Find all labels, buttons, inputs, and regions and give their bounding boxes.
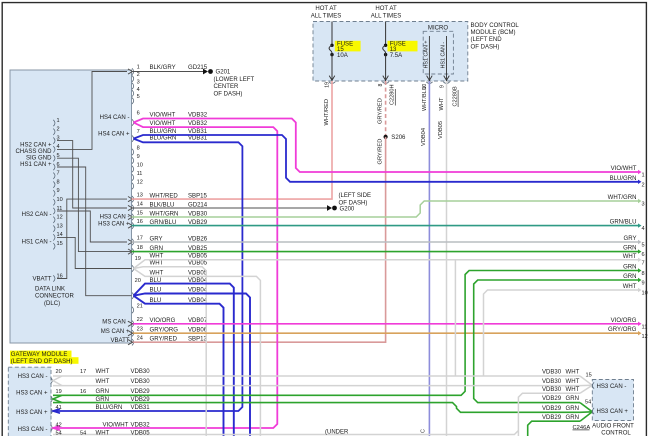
- svg-text:VDB32: VDB32: [188, 112, 208, 118]
- svg-text:41: 41: [56, 405, 62, 411]
- micro relay box: [423, 31, 453, 74]
- wire GRN VDB29 page edge pin9 riser down to audio row1: [474, 280, 639, 403]
- svg-text:HOT AT: HOT AT: [375, 6, 397, 12]
- body control module (BCM) box: [313, 22, 468, 82]
- svg-text:(UNDER: (UNDER: [325, 430, 349, 436]
- svg-text:VDB30: VDB30: [542, 387, 562, 393]
- svg-text:19: 19: [324, 82, 330, 88]
- svg-text:7: 7: [642, 260, 645, 266]
- svg-text:23: 23: [137, 327, 143, 333]
- svg-text:GRN: GRN: [623, 274, 636, 280]
- svg-text:11: 11: [137, 171, 143, 177]
- svg-text:WHT/BLU: WHT/BLU: [422, 86, 428, 111]
- svg-text:VDB31: VDB31: [188, 136, 208, 142]
- svg-text:GRN: GRN: [566, 396, 579, 402]
- page-edge connector pin 8 (GRN): [638, 268, 642, 272]
- pin14 to pin19 internal wire: [57, 237, 132, 268]
- svg-text:4: 4: [137, 87, 140, 93]
- svg-text:VDB30: VDB30: [542, 369, 562, 375]
- arrow into pin13: [128, 197, 133, 202]
- svg-text:BLU/GRN: BLU/GRN: [610, 176, 637, 182]
- svg-text:8: 8: [137, 145, 140, 151]
- svg-text:10: 10: [57, 197, 63, 203]
- svg-text:VDB31: VDB31: [131, 405, 151, 411]
- gateway pin brackets: [51, 377, 53, 383]
- svg-text:6: 6: [642, 252, 645, 258]
- svg-text:WHT: WHT: [96, 369, 110, 375]
- pin4 to pin1 internal wire: [57, 72, 127, 150]
- svg-text:10: 10: [137, 162, 143, 168]
- svg-text:GRY/RED: GRY/RED: [378, 139, 384, 165]
- svg-text:VIO/WHT: VIO/WHT: [103, 422, 129, 428]
- svg-text:OF DASH): OF DASH): [471, 44, 500, 50]
- gateway chevron GRN rows: [53, 395, 62, 402]
- arrow into pin1: [128, 69, 133, 74]
- svg-text:VDB30: VDB30: [542, 379, 562, 385]
- svg-text:54: 54: [80, 430, 86, 436]
- svg-text:12: 12: [642, 334, 648, 340]
- wire fuse F13 output: [385, 55, 387, 81]
- splice S206: [384, 135, 388, 139]
- gateway chevron VIO/WHT row: [53, 426, 60, 430]
- svg-text:13: 13: [57, 223, 63, 229]
- page-edge connector pin 5 (GRY): [638, 240, 642, 244]
- svg-text:8: 8: [57, 179, 60, 185]
- svg-text:GATEWAY MODULE: GATEWAY MODULE: [11, 352, 68, 358]
- svg-text:10A: 10A: [337, 53, 349, 59]
- svg-text:7: 7: [57, 171, 60, 177]
- fuse F15 yellow highlight: [335, 41, 361, 52]
- svg-text:VDB32: VDB32: [131, 422, 151, 428]
- svg-text:3: 3: [137, 79, 140, 85]
- svg-text:8: 8: [378, 84, 384, 87]
- svg-text:OF DASH): OF DASH): [214, 91, 243, 97]
- svg-text:20: 20: [56, 369, 62, 375]
- svg-text:12: 12: [137, 179, 143, 185]
- svg-text:HS1 CAN -: HS1 CAN -: [440, 42, 446, 69]
- svg-text:HS1 CAN -: HS1 CAN -: [22, 240, 52, 246]
- svg-text:(LEFT SIDE: (LEFT SIDE: [339, 193, 371, 199]
- DLC harness-side pin brackets (right edge): [132, 68, 134, 74]
- svg-text:G201: G201: [216, 70, 231, 76]
- svg-text:GRN/BLU: GRN/BLU: [610, 220, 637, 226]
- svg-text:GRN: GRN: [566, 415, 579, 421]
- svg-text:WHT: WHT: [566, 379, 580, 385]
- svg-text:VIO/ORG: VIO/ORG: [611, 318, 637, 324]
- svg-text:ALL TIMES: ALL TIMES: [371, 13, 402, 19]
- fuse F15 symbol: [331, 22, 333, 45]
- wire WHT VDB30 page edge pin10 riser down to audio row1: [484, 290, 639, 376]
- svg-text:WHT: WHT: [96, 379, 110, 385]
- svg-text:5: 5: [642, 243, 645, 249]
- wire GRY/RED dashed segment fuse13 to S206: [385, 81, 387, 137]
- ground G200 symbol: [327, 205, 332, 211]
- svg-text:15: 15: [337, 47, 344, 53]
- svg-text:21: 21: [137, 303, 143, 309]
- svg-text:2: 2: [137, 72, 140, 78]
- pin6 to pin20 internal wire: [57, 167, 132, 296]
- svg-text:54: 54: [56, 430, 62, 436]
- svg-text:WHT: WHT: [150, 271, 164, 277]
- svg-text:VDB29: VDB29: [131, 389, 151, 395]
- svg-text:VBATT: VBATT: [110, 338, 129, 344]
- page-edge connector pin 4 (GRN/BLU): [638, 223, 642, 227]
- svg-text:HS3 CAN +: HS3 CAN +: [597, 409, 629, 415]
- svg-text:VIO/WHT: VIO/WHT: [150, 112, 176, 118]
- svg-text:HS3 CAN -: HS3 CAN -: [597, 384, 627, 390]
- svg-text:VDB30: VDB30: [131, 379, 151, 385]
- svg-text:13: 13: [137, 193, 143, 199]
- BCM exit arrow at x=446.5: [444, 76, 450, 81]
- svg-text:GRN: GRN: [566, 406, 579, 412]
- svg-text:15: 15: [57, 241, 63, 247]
- BCM connector bracket at x=332: [329, 82, 335, 84]
- svg-text:BODY CONTROL: BODY CONTROL: [471, 23, 520, 29]
- arrow into pin24: [128, 340, 133, 345]
- WHT VDB05 row2 down off-page: [134, 267, 207, 436]
- svg-text:MICRO: MICRO: [428, 25, 448, 31]
- svg-text:WHT: WHT: [150, 261, 164, 267]
- DLC pin20 chevron (HS1 CAN+) BLU VDB04 row1 down off-page: [134, 284, 234, 436]
- wire BLK/GRY GD215 pin1 to G201: [132, 71, 204, 73]
- svg-text:GRY/ORG: GRY/ORG: [608, 327, 637, 333]
- svg-text:GRN: GRN: [96, 389, 109, 395]
- DLC pin6 second branch VIO/WHT VDB32 to gateway pin42: [53, 123, 277, 429]
- pin16 to pin13 internal wire: [57, 199, 127, 278]
- svg-text:17: 17: [137, 235, 143, 241]
- data link connector (DLC) module box: [10, 70, 132, 343]
- svg-text:C2280H: C2280H: [390, 84, 396, 105]
- svg-text:HS1 CAN +: HS1 CAN +: [424, 40, 430, 68]
- page-edge connector pin 2 (BLU/GRN): [638, 180, 642, 184]
- svg-text:WHT: WHT: [623, 254, 637, 260]
- svg-text:WHT: WHT: [566, 387, 580, 393]
- svg-text:MS CAN -: MS CAN -: [102, 319, 129, 325]
- page-edge connector pin 7 (WHT): [638, 258, 642, 262]
- wire GRN VDB29 gateway row3 to page edge pin8 via riser: [53, 271, 639, 396]
- svg-text:S206: S206: [391, 135, 406, 141]
- gateway chevron BLU/GRN row: [53, 409, 60, 413]
- svg-text:7.5A: 7.5A: [390, 53, 403, 59]
- svg-text:19: 19: [135, 256, 141, 262]
- svg-text:10: 10: [642, 291, 648, 297]
- wire fuse F15 output: [331, 55, 333, 81]
- gateway module title yellow highlight: [10, 351, 72, 358]
- svg-text:15: 15: [586, 372, 592, 378]
- svg-text:WHT: WHT: [566, 369, 580, 375]
- BCM connector bracket at x=446.5: [443, 82, 449, 84]
- svg-text:CHASS GND: CHASS GND: [16, 149, 53, 155]
- svg-text:14: 14: [137, 201, 143, 207]
- svg-text:22: 22: [137, 317, 143, 323]
- svg-text:HS3 CAN -: HS3 CAN -: [100, 214, 130, 220]
- svg-text:3: 3: [642, 202, 645, 208]
- svg-text:19: 19: [56, 389, 62, 395]
- svg-text:VDB05: VDB05: [188, 261, 208, 267]
- svg-text:WHT/RED: WHT/RED: [324, 99, 330, 126]
- svg-text:MS CAN +: MS CAN +: [101, 329, 130, 335]
- wire GRY/ORG VDB06 pin23 to page edge pin12: [132, 332, 639, 334]
- svg-text:BLU/GRN: BLU/GRN: [150, 136, 177, 142]
- svg-text:VDB05: VDB05: [188, 271, 208, 277]
- pin11 to pin17 internal wire: [57, 211, 127, 242]
- wire WHT/RED SBP15 from fuse 15 to DLC pin13: [132, 81, 333, 199]
- fuse F13 yellow highlight: [388, 41, 418, 52]
- svg-text:WHT: WHT: [623, 284, 637, 290]
- svg-text:11: 11: [642, 324, 648, 330]
- svg-text:8: 8: [642, 271, 645, 277]
- svg-text:VDB30: VDB30: [131, 369, 151, 375]
- svg-text:BLU/GRN: BLU/GRN: [150, 129, 177, 135]
- svg-text:1: 1: [642, 173, 645, 179]
- arrow into pin17: [128, 239, 133, 244]
- audio pin brackets: [592, 382, 594, 388]
- ground G201 symbol: [203, 69, 208, 75]
- svg-text:VBATT: VBATT: [32, 277, 51, 283]
- DLC pin7 chevron HS4 CAN + (BLU/GRN): [134, 135, 639, 182]
- riser WHT continues from off-page bottom: [518, 393, 580, 436]
- svg-text:(DLC): (DLC): [44, 301, 60, 307]
- arrow into pin22: [128, 321, 133, 326]
- gateway chevron WHT rows: [53, 376, 62, 386]
- BCM connector bracket at x=429.4: [426, 82, 432, 84]
- svg-text:GRY: GRY: [624, 236, 637, 242]
- svg-text:54: 54: [585, 399, 591, 405]
- svg-text:HS2 CAN -: HS2 CAN -: [22, 212, 52, 218]
- svg-text:HS3 CAN +: HS3 CAN +: [16, 391, 48, 397]
- svg-text:VDB04: VDB04: [421, 128, 427, 146]
- pin5 to pin18 internal wire: [57, 158, 132, 251]
- audio front control module box: [592, 380, 633, 421]
- svg-text:16: 16: [80, 389, 86, 395]
- svg-text:SIG GND: SIG GND: [26, 156, 52, 162]
- wire WHT VDB05 gateway pin54 to audio row3 via riser: [53, 431, 518, 435]
- WHT riser link from HS1 CAN- row down to gateway row1: [454, 260, 456, 376]
- arrow into pin23: [128, 331, 133, 336]
- svg-text:5: 5: [137, 94, 140, 100]
- page-edge connector pin 1 (VIO/WHT): [638, 170, 642, 174]
- svg-text:VDB31: VDB31: [188, 129, 208, 135]
- wire GRN VDB25 pin18 to page edge pin6: [132, 251, 639, 253]
- svg-text:VIO/WHT: VIO/WHT: [611, 166, 637, 172]
- svg-text:WHT: WHT: [439, 97, 445, 110]
- svg-text:HS3 CAN +: HS3 CAN +: [16, 410, 48, 416]
- pin3 to pin14 internal wire: [57, 141, 127, 208]
- micro relay internal wires: [428, 36, 430, 81]
- svg-text:1: 1: [137, 65, 140, 71]
- svg-text:VDB05: VDB05: [188, 253, 208, 259]
- svg-text:VDB05: VDB05: [131, 430, 151, 436]
- DLC pin6 chevron HS4 CAN - (VIO/WHT): [134, 119, 639, 173]
- wire GRY VDB26 pin17 to page edge pin5: [132, 241, 639, 243]
- svg-text:HS3 CAN -: HS3 CAN -: [18, 374, 48, 380]
- audio module HS3 CAN - chevron merge: [580, 376, 592, 385]
- svg-text:HS3 CAN +: HS3 CAN +: [98, 221, 130, 227]
- svg-text:G200: G200: [340, 206, 355, 212]
- svg-text:18: 18: [137, 245, 143, 251]
- svg-text:HOT AT: HOT AT: [315, 6, 337, 12]
- svg-text:1: 1: [57, 118, 60, 124]
- fuse F13 symbol: [385, 22, 387, 45]
- svg-text:13: 13: [390, 47, 397, 53]
- wire BLK/BLU GD214 pin14 to G200: [132, 207, 328, 209]
- wire WHT/BLU VDB04 from BCM pin10 down off-page: [428, 81, 430, 436]
- svg-text:GRN: GRN: [623, 265, 636, 271]
- svg-text:HS1 CAN +: HS1 CAN +: [20, 162, 52, 168]
- DLC pin7 second branch BLU/GRN VDB31 to gateway pin41: [53, 139, 242, 411]
- svg-text:(LEFT END OF DASH): (LEFT END OF DASH): [11, 359, 73, 365]
- BCM exit arrow at x=429.4: [427, 76, 433, 81]
- svg-text:9: 9: [642, 281, 645, 287]
- wire GRN VDB29 gateway row4 step to audio row2: [53, 403, 580, 413]
- page-edge connector pin 9 (GRN): [638, 278, 642, 282]
- audio module HS3 CAN + chevron merge: [580, 403, 592, 412]
- svg-text:15: 15: [137, 210, 143, 216]
- svg-text:DATA LINK: DATA LINK: [35, 287, 65, 293]
- arrow into pin15: [128, 214, 133, 219]
- svg-text:C: C: [421, 429, 427, 433]
- svg-text:VDB05: VDB05: [438, 121, 444, 139]
- svg-text:WHT: WHT: [96, 430, 110, 436]
- svg-text:VDB29: VDB29: [542, 406, 562, 412]
- svg-text:20: 20: [135, 278, 141, 284]
- wire WHT VDB30 gateway row1: [53, 375, 484, 377]
- svg-text:VDB29: VDB29: [542, 396, 562, 402]
- DLC pin19 chevron (HS1 CAN-) WHT VDB05 row1 to page edge pin7: [134, 260, 639, 269]
- svg-text:GRY/RED: GRY/RED: [378, 98, 384, 124]
- wire GRN/BLU VDB29 pin16 to page edge pin4: [132, 225, 639, 227]
- svg-text:16: 16: [137, 219, 143, 225]
- svg-text:24: 24: [137, 336, 143, 342]
- svg-text:VDB29: VDB29: [542, 415, 562, 421]
- svg-text:42: 42: [56, 422, 62, 428]
- svg-text:(LOWER LEFT: (LOWER LEFT: [214, 77, 255, 83]
- svg-text:CONTROL: CONTROL: [601, 431, 631, 436]
- wire WHT VDB30 gateway row2 to audio: [53, 385, 580, 387]
- page-edge connector pin 11 (VIO/ORG): [638, 322, 642, 326]
- svg-text:HS4 CAN +: HS4 CAN +: [98, 132, 130, 138]
- svg-text:AUDIO FRONT: AUDIO FRONT: [592, 423, 634, 429]
- WHT VDB05 row3 down off-page: [134, 269, 261, 437]
- gateway module box: [8, 367, 51, 437]
- svg-text:ALL TIMES: ALL TIMES: [311, 13, 342, 19]
- svg-text:2: 2: [642, 182, 645, 188]
- BCM exit arrow at x=332: [329, 76, 335, 81]
- page-edge connector pin 10 (WHT): [638, 288, 642, 292]
- page-edge connector pin 6 (GRN): [638, 249, 642, 253]
- page-edge connector pin 12 (GRY/ORG): [638, 331, 642, 335]
- svg-text:C2280B: C2280B: [452, 86, 458, 106]
- svg-text:VDB29: VDB29: [131, 397, 151, 403]
- wire WHT VDB05 from BCM pin9 down: [446, 81, 448, 436]
- svg-text:6: 6: [137, 111, 140, 117]
- arrow into pin16: [128, 223, 133, 228]
- svg-text:BLK/GRY: BLK/GRY: [150, 65, 176, 71]
- wire GRY/RED SBP13 from S206 to DLC pin24: [132, 137, 386, 342]
- svg-text:HS4 CAN -: HS4 CAN -: [100, 115, 130, 121]
- svg-text:BLU/GRN: BLU/GRN: [96, 405, 123, 411]
- svg-text:HS2 CAN +: HS2 CAN +: [20, 143, 52, 149]
- svg-text:HS3 CAN -: HS3 CAN -: [18, 427, 48, 433]
- arrow into pin18: [128, 249, 133, 254]
- svg-text:4: 4: [642, 226, 645, 232]
- BLU VDB04 row2 down off-page: [134, 294, 251, 437]
- svg-text:9: 9: [137, 154, 140, 160]
- svg-text:GRN: GRN: [623, 246, 636, 252]
- svg-text:CENTER: CENTER: [214, 84, 239, 90]
- wire VIO/ORG VDB07 pin22 to page edge pin11: [132, 323, 639, 325]
- svg-text:CONNECTOR: CONNECTOR: [35, 294, 74, 300]
- svg-text:GRN: GRN: [96, 397, 109, 403]
- BCM connector bracket at x=385.6: [382, 82, 388, 84]
- svg-text:MODULE (BCM): MODULE (BCM): [471, 30, 516, 36]
- page-edge connector pin 3 (WHT/GRN): [638, 199, 642, 203]
- wire GRN VDB29 from off-page bottom to audio row3: [528, 421, 580, 436]
- svg-text:(LEFT END: (LEFT END: [471, 37, 503, 43]
- DLC face pins 1-16 brackets and numbers: [53, 120, 55, 126]
- svg-text:WHT/GRN: WHT/GRN: [608, 195, 637, 201]
- BCM exit arrow at x=385.6: [383, 76, 389, 81]
- svg-text:9: 9: [439, 85, 445, 88]
- arrow into pin14: [128, 205, 133, 210]
- svg-text:12: 12: [57, 215, 63, 221]
- svg-text:9: 9: [57, 188, 60, 194]
- BLU VDB04 row3 down off-page: [134, 296, 224, 436]
- svg-text:7: 7: [137, 129, 140, 135]
- wire WHT/GRN VDB30 pin15 to page edge pin3: [132, 201, 639, 217]
- svg-text:17: 17: [80, 369, 86, 375]
- svg-text:WHT: WHT: [150, 253, 164, 259]
- svg-text:2: 2: [57, 127, 60, 133]
